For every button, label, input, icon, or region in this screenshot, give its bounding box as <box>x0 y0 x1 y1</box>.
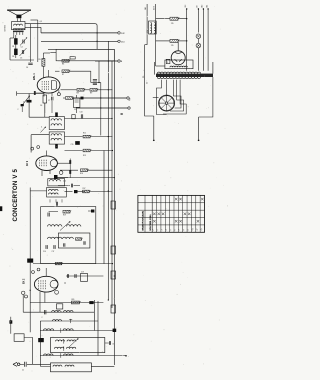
svg-text:3: 3 <box>23 102 24 104</box>
svg-text:R20: R20 <box>72 299 75 301</box>
svg-text:C16: C16 <box>43 251 46 253</box>
svg-text:R8: R8 <box>77 93 79 95</box>
svg-text:R13: R13 <box>83 155 86 157</box>
svg-text:Ch: Ch <box>112 344 114 346</box>
svg-text:C17: C17 <box>52 251 55 253</box>
svg-text:4,5: 4,5 <box>40 21 42 23</box>
svg-text:CONCERTON V 5: CONCERTON V 5 <box>12 168 19 221</box>
svg-text:EF 9: EF 9 <box>26 160 29 166</box>
svg-text:4: 4 <box>41 127 42 129</box>
svg-text:R19: R19 <box>63 215 66 217</box>
svg-text:~: ~ <box>128 356 129 358</box>
svg-text:C9: C9 <box>74 109 76 111</box>
svg-text:240: 240 <box>145 7 147 10</box>
svg-text:C4: C4 <box>26 67 28 69</box>
svg-text:EBL 1: EBL 1 <box>33 73 36 80</box>
svg-text:GRAMOFOON (AAN): GRAMOFOON (AAN) <box>142 211 145 231</box>
svg-text:C1: C1 <box>22 370 24 372</box>
svg-text:0617: 0617 <box>147 29 149 33</box>
svg-text:2: 2 <box>167 62 168 64</box>
svg-text:GOLFGEB. K-M-L: GOLFGEB. K-M-L <box>150 213 152 230</box>
svg-text:817: 817 <box>197 5 199 8</box>
svg-text:R17: R17 <box>83 188 86 190</box>
svg-text:115: 115 <box>171 23 174 25</box>
svg-text:R2: R2 <box>12 56 14 58</box>
svg-text:R6: R6 <box>62 64 64 66</box>
svg-text:R9: R9 <box>90 93 92 95</box>
svg-text:C6: C6 <box>40 105 42 107</box>
svg-text:R7: R7 <box>62 74 64 76</box>
svg-text:D279: D279 <box>154 6 156 10</box>
svg-text:2: 2 <box>18 109 19 111</box>
svg-text:C13: C13 <box>80 111 83 113</box>
svg-text:C3: C3 <box>20 58 22 60</box>
svg-text:C19: C19 <box>81 272 84 274</box>
svg-text:C2: C2 <box>21 47 23 49</box>
svg-text:25 ~: 25 ~ <box>147 80 149 84</box>
svg-text:C7: C7 <box>48 100 50 102</box>
svg-text:S13: S13 <box>185 5 187 8</box>
svg-text:115: 115 <box>171 45 174 47</box>
svg-text:R1: R1 <box>12 46 14 48</box>
svg-text:9479 B: 9479 B <box>5 24 7 31</box>
svg-text:C15: C15 <box>71 144 74 146</box>
svg-text:R16: R16 <box>80 173 83 175</box>
svg-text:R12: R12 <box>83 132 86 134</box>
svg-text:EK 2: EK 2 <box>23 278 26 284</box>
svg-text:R5: R5 <box>39 59 41 61</box>
